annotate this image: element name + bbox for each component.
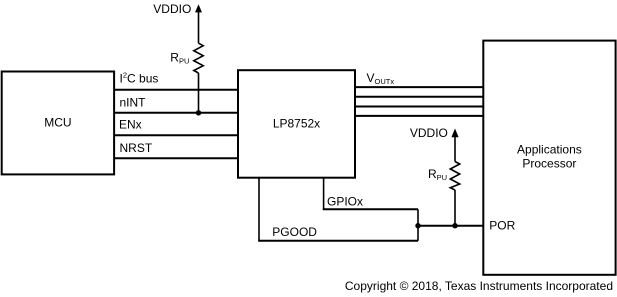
wire PGOOD horizontal xyxy=(258,240,418,242)
junction dot on nINT line xyxy=(196,110,201,115)
VDDIO supply arrow (right) xyxy=(451,129,458,138)
wire nINT (MCU to LP8752x) xyxy=(114,112,238,114)
svg-text:Applications: Applications xyxy=(517,143,582,157)
wire VOUTx line 1 xyxy=(355,86,483,88)
wire PGOOD vertical from LP8752x bottom xyxy=(258,178,260,241)
svg-text:VDDIO: VDDIO xyxy=(153,2,191,16)
svg-text:GPIOx: GPIOx xyxy=(327,194,363,208)
svg-text:NRST: NRST xyxy=(120,141,153,155)
junction dot RPU on POR line xyxy=(452,223,457,228)
wire GPIOx horizontal xyxy=(323,208,418,210)
wire POR to Applications Processor xyxy=(418,225,483,227)
svg-text:nINT: nINT xyxy=(120,95,147,109)
wire I2C bus (MCU to LP8752x) xyxy=(114,89,238,91)
svg-text:POR: POR xyxy=(489,219,515,233)
resistor RPU (left pull-up) xyxy=(194,43,203,73)
wire resistor RPU (right) to POR line xyxy=(454,190,456,226)
LP8752x block U1 xyxy=(238,70,355,178)
svg-text:VDDIO: VDDIO xyxy=(410,126,448,140)
svg-text:ENx: ENx xyxy=(119,118,142,132)
wire NRST (MCU to LP8752x) xyxy=(114,157,238,159)
svg-text:Copyright © 2018, Texas Instru: Copyright © 2018, Texas Instruments Inco… xyxy=(345,279,613,293)
VDDIO supply arrow (left) xyxy=(195,4,202,12)
wire VOUTx line 3 xyxy=(355,106,483,108)
resistor RPU (right pull-up) xyxy=(450,162,459,191)
svg-text:LP8752x: LP8752x xyxy=(273,117,320,131)
wire GPIOx vertical from LP8752x bottom xyxy=(323,178,325,210)
wire VOUTx line 4 xyxy=(355,115,483,117)
wire ENx (MCU to LP8752x) xyxy=(114,134,238,136)
svg-text:MCU: MCU xyxy=(44,115,71,129)
wire VDDIO arrow to resistor (right) xyxy=(454,137,456,162)
wire VOUTx line 2 xyxy=(355,96,483,98)
wire resistor RPU (left) to nINT line xyxy=(198,73,200,113)
wire tie GPIOx to PGOOD vertical xyxy=(417,209,419,241)
Applications Processor block U2 xyxy=(483,41,615,275)
svg-text:Processor: Processor xyxy=(522,157,576,171)
wire VDDIO arrow to resistor (left) xyxy=(198,12,200,43)
MCU block U-MCU xyxy=(2,72,114,175)
junction dot GPIOx-PGOOD node xyxy=(415,223,420,228)
svg-text:PGOOD: PGOOD xyxy=(272,225,317,239)
